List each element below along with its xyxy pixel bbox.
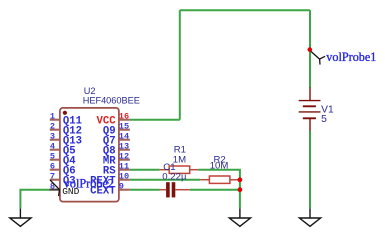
- wire battery to ground: [309, 131, 311, 209]
- wire pin8 to left ground: [20, 190, 49, 209]
- svg-text:13: 13: [119, 142, 129, 152]
- pin 13 stub: [119, 149, 130, 151]
- svg-text:volProbe1: volProbe1: [326, 50, 376, 64]
- svg-text:1: 1: [50, 112, 55, 122]
- svg-text:6: 6: [50, 162, 55, 172]
- capacitor C1: [160, 182, 190, 197]
- svg-text:11: 11: [119, 162, 129, 172]
- pin 10 stub: [119, 179, 130, 181]
- probe volProbe2: [50, 180, 61, 196]
- wire right vertical to battery: [309, 10, 311, 88]
- svg-text:5: 5: [321, 114, 327, 125]
- pin 16 stub: [119, 119, 130, 121]
- pin 6 stub: [50, 169, 60, 171]
- pin 8 stub: [50, 189, 60, 191]
- resistor R2: [200, 176, 240, 183]
- svg-text:3: 3: [50, 132, 55, 142]
- wire pin10 to R2: [130, 179, 200, 181]
- battery V1: [299, 88, 321, 131]
- wire C1 to right riser: [190, 189, 240, 191]
- svg-text:16: 16: [119, 112, 129, 122]
- pin 9 stub: [119, 189, 130, 191]
- junction dot C1 output: [238, 187, 243, 192]
- junction dot R2 output: [238, 177, 243, 182]
- pin 15 stub: [119, 129, 130, 131]
- resistor R1: [160, 166, 199, 173]
- ground left: [10, 209, 31, 227]
- wire pin16 to riser: [130, 119, 180, 121]
- wire riser left vertical: [179, 10, 181, 120]
- wire top horizontal: [180, 9, 310, 11]
- svg-text:10: 10: [119, 172, 129, 182]
- IC body: [60, 108, 119, 202]
- svg-text:10M: 10M: [210, 161, 229, 172]
- svg-text:2: 2: [50, 122, 55, 132]
- pin1 marker dot: [63, 111, 67, 115]
- svg-text:12: 12: [119, 152, 129, 162]
- pin 1 stub: [50, 119, 60, 121]
- ground middle: [229, 209, 250, 227]
- svg-text:14: 14: [119, 132, 129, 142]
- probe volProbe1: [308, 47, 326, 64]
- pin 5 stub: [50, 159, 60, 161]
- pin 14 stub: [119, 139, 130, 141]
- wire pin11 to R1: [130, 169, 160, 171]
- pin 11 stub: [119, 169, 130, 171]
- svg-text:4: 4: [50, 142, 55, 152]
- svg-text:5: 5: [50, 152, 55, 162]
- svg-text:9: 9: [119, 182, 124, 192]
- wire R1 to right riser: [198, 170, 240, 209]
- wire pin9 to C1: [130, 189, 160, 191]
- svg-text:volProbe2: volProbe2: [64, 177, 114, 191]
- svg-text:0.22µ: 0.22µ: [162, 172, 187, 183]
- IC U2 HEF4060BEE: [50, 108, 130, 202]
- svg-text:HEF4060BEE: HEF4060BEE: [83, 95, 140, 105]
- svg-text:15: 15: [119, 122, 129, 132]
- pin 3 stub: [50, 139, 60, 141]
- pin 2 stub: [50, 129, 60, 131]
- ground right: [299, 209, 320, 227]
- pin 12 stub: [119, 159, 130, 161]
- pin 4 stub: [50, 149, 60, 151]
- pin 7 stub: [50, 179, 60, 181]
